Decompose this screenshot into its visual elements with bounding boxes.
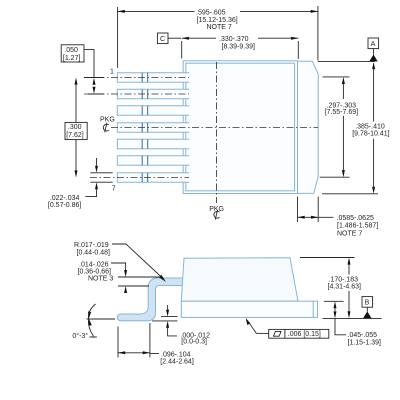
svg-text:[7.55-7.69]: [7.55-7.69] bbox=[325, 109, 359, 116]
svg-text:.006 [0.15]: .006 [0.15] bbox=[288, 331, 321, 338]
svg-text:7: 7 bbox=[112, 186, 116, 193]
svg-text:C: C bbox=[160, 36, 165, 43]
svg-text:0°-3°: 0°-3° bbox=[72, 332, 88, 340]
svg-text:.330-.370: .330-.370 bbox=[219, 36, 249, 43]
svg-text:.595-.605: .595-.605 bbox=[196, 10, 226, 17]
svg-text:.050: .050 bbox=[64, 47, 78, 54]
svg-text:NOTE 7: NOTE 7 bbox=[337, 230, 362, 237]
svg-text:1: 1 bbox=[110, 69, 114, 76]
svg-text:.170-.183: .170-.183 bbox=[329, 277, 359, 284]
svg-text:[4.31-4.63]: [4.31-4.63] bbox=[328, 284, 362, 291]
svg-text:[0.57-0.86]: [0.57-0.86] bbox=[48, 202, 82, 209]
svg-text:[0.36-0.66]: [0.36-0.66] bbox=[78, 268, 112, 275]
svg-text:R.017-.019: R.017-.019 bbox=[74, 242, 109, 249]
svg-text:[2.44-2.64]: [2.44-2.64] bbox=[160, 358, 194, 365]
svg-text:[0.0-0.3]: [0.0-0.3] bbox=[181, 339, 207, 346]
svg-text:[7.62]: [7.62] bbox=[66, 132, 84, 139]
svg-text:[1.27]: [1.27] bbox=[63, 55, 81, 62]
svg-text:A: A bbox=[371, 41, 376, 48]
svg-text:[1.15-1.39]: [1.15-1.39] bbox=[348, 339, 382, 346]
svg-text:NOTE 7: NOTE 7 bbox=[207, 24, 232, 31]
svg-text:[9.78-10.41]: [9.78-10.41] bbox=[352, 130, 389, 137]
svg-text:.0585-.0625: .0585-.0625 bbox=[337, 215, 374, 222]
svg-text:B: B bbox=[365, 300, 370, 307]
svg-text:.096-.104: .096-.104 bbox=[161, 351, 191, 358]
svg-text:NOTE 3: NOTE 3 bbox=[88, 275, 113, 282]
svg-text:.300: .300 bbox=[68, 124, 82, 131]
svg-text:[8.39-9.39]: [8.39-9.39] bbox=[222, 43, 256, 50]
svg-text:[1.486-1.587]: [1.486-1.587] bbox=[337, 222, 378, 229]
svg-text:.045-.055: .045-.055 bbox=[348, 332, 378, 339]
svg-text:[0.44-0.48]: [0.44-0.48] bbox=[77, 249, 111, 256]
svg-text:PKG: PKG bbox=[100, 117, 115, 124]
